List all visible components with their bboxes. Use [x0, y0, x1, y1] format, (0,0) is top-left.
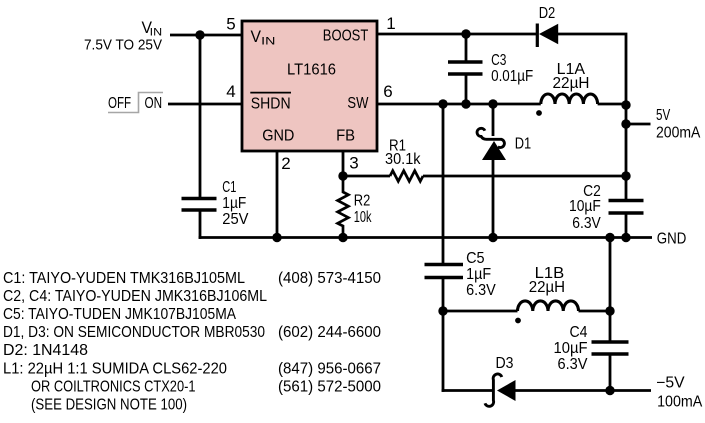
svg-text:5: 5: [226, 15, 235, 34]
svg-text:D1, D3: ON SEMICONDUCTOR MBR05: D1, D3: ON SEMICONDUCTOR MBR0530: [3, 324, 265, 341]
svg-text:C3: C3: [491, 52, 506, 69]
wire R1 to 5V node: [423, 175, 626, 178]
wire L1A to 5V node: [598, 103, 626, 106]
junction VIN node: [195, 30, 204, 39]
wire C5 to L1B node: [442, 278, 445, 312]
svg-text:0.01µF: 0.01µF: [491, 68, 533, 85]
junction D1 cathode branch on SW: [488, 99, 497, 108]
svg-text:1: 1: [386, 14, 395, 33]
svg-text:(408) 573-4150: (408) 573-4150: [278, 270, 381, 287]
wire SW to D1 cathode: [492, 104, 495, 136]
wire -5V rail right segment: [515, 389, 651, 392]
svg-text:6: 6: [383, 82, 392, 101]
svg-text:22µH: 22µH: [553, 75, 590, 92]
junction C3 top: [461, 29, 470, 38]
svg-text:C2, C4: TAIYO-YUDEN JMK316BJ10: C2, C4: TAIYO-YUDEN JMK316BJ106ML: [3, 288, 267, 305]
svg-text:6.3V: 6.3V: [466, 282, 496, 299]
wire VIN node down to C1: [199, 35, 202, 200]
junction pin 2 at ground: [272, 233, 281, 242]
wire ground rail: [199, 236, 652, 239]
svg-text:C1: C1: [222, 179, 236, 196]
svg-text:ON: ON: [145, 95, 163, 112]
svg-text:2: 2: [281, 154, 290, 173]
svg-text:4: 4: [226, 82, 235, 101]
wire BOOST pin 1 to D2 cathode: [377, 33, 538, 36]
junction C3 bottom on SW: [461, 99, 470, 108]
svg-text:6.3V: 6.3V: [558, 356, 589, 373]
svg-text:(602) 244-6600: (602) 244-6600: [278, 324, 381, 341]
svg-text:GND: GND: [657, 231, 687, 248]
inductor L1A: [536, 61, 598, 116]
inductor L1B: [515, 265, 578, 323]
svg-text:D2: 1N4148: D2: 1N4148: [3, 342, 88, 359]
svg-text:C5: TAIYO-TUDEN JMK107BJ105MA: C5: TAIYO-TUDEN JMK107BJ105MA: [3, 306, 237, 323]
wire SW branch down to C5: [442, 104, 445, 265]
junction L1A right at 5V node: [621, 100, 630, 109]
svg-text:−5V: −5V: [656, 374, 685, 391]
junction L1B right: [605, 306, 614, 315]
wire C1 to ground rail: [199, 210, 202, 239]
svg-text:IN: IN: [261, 35, 275, 47]
junction D1 anode at ground: [488, 233, 497, 242]
resistor R1: [385, 138, 423, 182]
wire FB pin 3 stub: [342, 151, 345, 176]
svg-text:SW: SW: [347, 95, 368, 112]
capacitor C4: [554, 324, 629, 373]
junction 5V output tap: [621, 119, 630, 128]
svg-text:1µF: 1µF: [222, 195, 246, 212]
node -5V output label: [656, 374, 703, 410]
node 5V output label: [656, 107, 701, 142]
wire C2 bottom to ground rail: [625, 213, 628, 238]
wire L1B right to C4: [609, 311, 612, 342]
svg-text:OR COILTRONICS CTX20-1: OR COILTRONICS CTX20-1: [31, 379, 196, 396]
junction ground rail to lower section: [605, 233, 614, 242]
wire L1B left lead: [443, 310, 518, 313]
junction FB node: [338, 171, 347, 180]
svg-text:200mA: 200mA: [656, 125, 701, 142]
wire D2 anode to 5V node and C2 top: [558, 34, 626, 201]
svg-text:10µF: 10µF: [569, 198, 601, 215]
svg-text:LT1616: LT1616: [287, 61, 336, 78]
capacitor C3: [448, 34, 533, 104]
wire -5V rail left segment to D3 cathode: [442, 389, 494, 392]
svg-text:3: 3: [349, 154, 358, 173]
junction C4 at -5V rail: [605, 386, 614, 395]
junction R1 at 5V node: [621, 171, 630, 180]
svg-text:R2: R2: [354, 193, 371, 210]
svg-text:1µF: 1µF: [466, 266, 491, 283]
svg-text:D3: D3: [496, 355, 514, 372]
svg-text:7.5V TO 25V: 7.5V TO 25V: [84, 37, 162, 54]
wire C5/L1B node down to -5V rail: [442, 311, 445, 392]
capacitor C2: [569, 183, 644, 232]
svg-text:C5: C5: [466, 250, 485, 267]
wire 5V output stub: [626, 123, 651, 126]
svg-text:10µF: 10µF: [554, 340, 588, 357]
svg-text:(561) 572-5000: (561) 572-5000: [278, 379, 381, 396]
junction C2 at ground: [621, 233, 630, 242]
wire pin 2 GND to ground rail: [276, 151, 279, 238]
wire C4 to -5V rail: [609, 354, 612, 391]
svg-text:25V: 25V: [222, 211, 249, 228]
svg-text:OFF: OFF: [108, 95, 131, 112]
svg-text:FB: FB: [336, 128, 355, 145]
svg-text:V: V: [251, 28, 262, 46]
svg-text:SHDN: SHDN: [251, 95, 291, 112]
svg-text:GND: GND: [262, 128, 294, 145]
svg-text:L1: 22µH 1:1 SUMIDA CLS62-220: L1: 22µH 1:1 SUMIDA CLS62-220: [3, 360, 227, 377]
svg-text:D2: D2: [539, 5, 556, 22]
svg-text:C1: TAIYO-YUDEN TMK316BJ105ML: C1: TAIYO-YUDEN TMK316BJ105ML: [3, 270, 245, 287]
IC U1 LT1616: [242, 21, 377, 151]
svg-text:30.1k: 30.1k: [385, 151, 421, 168]
wire VIN to pin 5: [170, 34, 242, 37]
junction R2 at ground: [338, 233, 347, 242]
wire FB to R1: [343, 175, 390, 178]
parts list note: [3, 270, 381, 414]
svg-text:22µH: 22µH: [529, 279, 565, 296]
svg-text:C4: C4: [570, 324, 588, 341]
capacitor C1: [182, 179, 250, 228]
wire ON to pin 4 SHDN: [168, 103, 242, 106]
svg-text:100mA: 100mA: [657, 393, 703, 410]
capacitor C5: [425, 250, 497, 299]
svg-text:10k: 10k: [354, 209, 372, 226]
svg-text:(847) 956-0667: (847) 956-0667: [278, 360, 381, 377]
diode D2: [537, 5, 558, 47]
wire SW pin 6 to L1A: [377, 103, 541, 106]
junction L1B left: [438, 306, 447, 315]
node VIN input label: [84, 19, 162, 54]
resistor R2: [338, 176, 372, 238]
svg-text:(SEE DESIGN NOTE 100): (SEE DESIGN NOTE 100): [31, 397, 187, 414]
svg-text:6.3V: 6.3V: [572, 215, 601, 232]
diode D1 Schottky: [477, 128, 531, 160]
switch OFF/ON logic-level symbol: [108, 93, 163, 113]
svg-text:5V: 5V: [656, 107, 671, 124]
wire D1 anode to ground rail: [492, 160, 495, 238]
wire L1B right lead: [579, 310, 611, 313]
svg-text:D1: D1: [515, 136, 532, 153]
diode D3 Schottky: [485, 355, 516, 406]
junction C5 branch on SW: [438, 99, 447, 108]
wire ground rail down to L1B right: [609, 238, 612, 312]
svg-text:BOOST: BOOST: [323, 28, 369, 45]
